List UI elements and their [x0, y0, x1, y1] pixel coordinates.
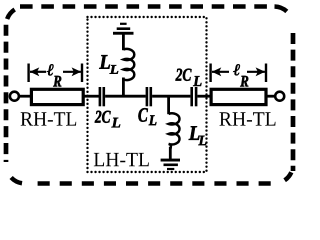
outer dashed border: right edge: [291, 33, 296, 171]
capacitor 2CL (right) plates: [190, 87, 193, 106]
label LL (bottom inductor) main L: [189, 126, 200, 140]
outer dashed border: top-right corner arc: [274, 7, 293, 26]
dimension lR (right): end bars: [209, 64, 211, 83]
label 2CL (right capacitor) subscript L: [193, 76, 201, 86]
wire RH-TL box to port P2: [267, 95, 276, 98]
outer dashed border: left edge: [4, 25, 9, 162]
label RH-TL (left): [21, 112, 77, 125]
label RH-TL (right): [219, 112, 275, 125]
dimension lR (right): right arrow: [247, 71, 265, 73]
capacitor 2CL (left) plates: [99, 87, 102, 106]
label LH-TL: [94, 153, 149, 166]
label lR (right) script ell: [233, 64, 240, 75]
wire capacitor CL to capacitor 2CL with junction: [152, 95, 190, 98]
wire stub up to LL inductor: [122, 78, 125, 98]
wire RH-TL box to capacitor 2CL: [85, 95, 100, 98]
label lR (left) subscript R: [53, 76, 61, 87]
outer dashed border: bottom-left corner arc: [6, 165, 25, 184]
inductor LL (bottom) coil: [169, 113, 180, 149]
wire port P1 to RH-TL box: [19, 95, 31, 98]
wire stub down to LL inductor (bottom): [167, 95, 170, 114]
outer dashed border: top edge: [20, 4, 275, 9]
dimension lR (left): left arrow: [30, 71, 46, 73]
wire capacitor 2CL to capacitor CL with junction: [105, 95, 146, 98]
label 2CL (right capacitor) main 2C: [176, 69, 192, 81]
RH-TL box (left): [31, 89, 83, 104]
outer dashed border: bottom-right corner arc: [274, 165, 293, 184]
ground (top, pointing up): [113, 23, 134, 35]
outer dashed border: bottom edge: [28, 181, 277, 186]
label LL (top inductor) main L: [99, 55, 110, 68]
port P1 (left): [10, 92, 19, 101]
wire inductor LL to ground (bottom): [169, 147, 172, 160]
ground (bottom, pointing down): [161, 159, 180, 170]
label 2CL (left capacitor) subscript L: [112, 118, 121, 128]
label CL (middle capacitor) main C: [138, 108, 148, 122]
label LL (bottom inductor) subscript L: [198, 136, 206, 145]
label 2CL (left capacitor) main 2C: [95, 111, 111, 123]
outer dashed border: top-left corner arc: [6, 7, 25, 26]
dimension lR (right): left arrow: [212, 71, 229, 73]
LH-TL dotted box: [88, 17, 207, 172]
RH-TL box (right): [211, 89, 266, 104]
wire capacitor 2CL to RH-TL box (right): [197, 95, 212, 98]
label CL (middle capacitor) subscript L: [149, 115, 157, 125]
inductor LL (top) coil: [123, 49, 134, 80]
capacitor CL (middle) plates: [146, 87, 149, 106]
label LL (top inductor) subscript L: [110, 65, 119, 74]
label lR (left) script ell: [47, 64, 54, 75]
port P2 (right): [275, 92, 284, 101]
label lR (right) subscript R: [240, 76, 248, 87]
wire inductor LL to ground (top): [122, 33, 125, 50]
dimension lR (left): end bars: [27, 64, 29, 83]
dimension lR (left): right arrow: [63, 71, 81, 73]
